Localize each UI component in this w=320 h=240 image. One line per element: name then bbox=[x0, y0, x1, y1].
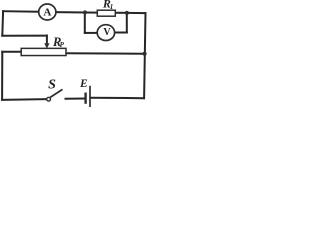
svg-text:S: S bbox=[48, 77, 56, 92]
wire left vertical upper bbox=[1, 11, 4, 35]
svg-text:V: V bbox=[103, 27, 111, 38]
svg-text:A: A bbox=[43, 6, 51, 18]
wire slider arrow shaft bbox=[46, 36, 48, 44]
wire bottom left (switch to corner) bbox=[2, 98, 47, 101]
slider arrowhead bbox=[44, 43, 49, 48]
wire voltmeter branch left horizontal bbox=[85, 32, 98, 34]
wire bottom middle (battery to switch) bbox=[66, 98, 85, 100]
wire bottom right (corner to battery) bbox=[91, 97, 144, 100]
switch S contact circle bbox=[47, 97, 51, 101]
svg-text:1: 1 bbox=[110, 3, 114, 11]
battery E negative plate (short thick) bbox=[84, 93, 86, 104]
wire left vertical lower bbox=[1, 52, 3, 100]
wire top-left horizontal bbox=[3, 10, 39, 13]
wire right vertical bbox=[144, 13, 145, 98]
svg-text:E: E bbox=[79, 78, 88, 90]
rheostat Rp bbox=[21, 48, 66, 55]
voltmeter V bbox=[97, 25, 114, 41]
wire top middle (ammeter to R1) bbox=[56, 11, 97, 14]
resistor R1 bbox=[97, 10, 115, 16]
wire top right (R1 to top-right corner) bbox=[116, 12, 146, 14]
wire voltmeter branch right horizontal bbox=[115, 32, 127, 34]
node junction rheostat wire to right vertical bbox=[143, 52, 147, 56]
svg-text:P: P bbox=[60, 41, 65, 49]
node junction after R1 bbox=[125, 11, 129, 15]
wire voltmeter branch right vertical bbox=[126, 13, 128, 33]
wire connector to rheostat left terminal bbox=[2, 51, 21, 53]
wire slider horizontal bbox=[2, 35, 47, 37]
battery E positive plate (long thin) bbox=[89, 86, 91, 107]
node junction after ammeter bbox=[83, 10, 87, 14]
wire voltmeter branch left vertical bbox=[84, 12, 86, 33]
wire rheostat right terminal to right vertical bbox=[66, 52, 145, 55]
switch S lever bbox=[50, 89, 62, 97]
ammeter A bbox=[39, 4, 56, 20]
